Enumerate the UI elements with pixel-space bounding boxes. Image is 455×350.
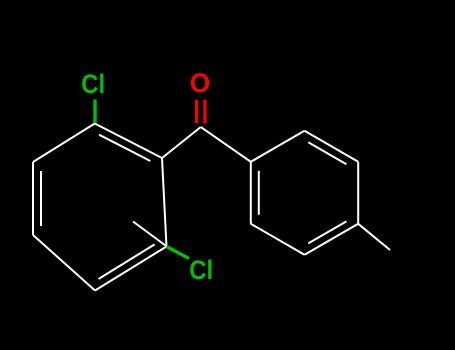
bond C6-Cl bottom (green) xyxy=(167,247,190,259)
bond C1-carbonyl C xyxy=(162,127,201,158)
right benzene ring (methylphenyl) xyxy=(251,131,390,255)
bond carbonyl C - R1 xyxy=(201,127,251,162)
double bond inner line C5=C6 xyxy=(99,244,155,279)
bond C2-Cl top (green) xyxy=(93,100,96,124)
double bond inner line R4=R5 xyxy=(308,221,346,243)
bond methyl R4-CH3 xyxy=(358,224,390,250)
bond C5-C6 xyxy=(95,247,167,291)
svg-text:Cl: Cl xyxy=(189,255,213,285)
bond R4-R5 xyxy=(305,224,359,255)
double bond inner line R6=R1 xyxy=(258,171,260,215)
bond C6-C1 xyxy=(162,158,167,247)
double bond inner line R2=R3 xyxy=(308,142,346,164)
carbonyl C=O double bond (red) xyxy=(197,100,205,123)
bond R6-R1 xyxy=(250,162,252,224)
bond R2-R3 xyxy=(305,131,359,162)
left benzene ring (2,6-dichlorophenyl) xyxy=(33,124,251,291)
double bond inner line C1=C2 xyxy=(99,135,150,161)
bond R3-R4 xyxy=(357,162,359,224)
bond C4-C5 xyxy=(33,235,95,291)
bond C3-C4 xyxy=(32,162,34,235)
svg-text:Cl: Cl xyxy=(81,69,105,99)
short inner line at C6 (as drawn in original) xyxy=(133,222,166,246)
bond C2-C3 xyxy=(33,124,95,163)
svg-text:O: O xyxy=(190,68,211,98)
bond R5-R6 xyxy=(251,224,305,255)
double bond inner line C3=C4 xyxy=(40,171,42,226)
bond C1-C2 xyxy=(95,124,162,159)
bond R1-R2 xyxy=(251,131,305,162)
